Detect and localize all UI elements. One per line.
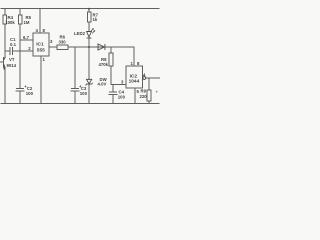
wire pin 2 to IC1	[20, 50, 33, 52]
svg-text:555: 555	[37, 47, 45, 53]
transistor VT base bar	[3, 58, 5, 67]
wire R9 branch	[148, 78, 150, 90]
diode VD	[98, 44, 104, 50]
svg-text:220: 220	[140, 94, 148, 99]
LED LED2	[87, 32, 92, 38]
wire R6 to IC2 corner	[68, 46, 134, 48]
wire R7 to LED2	[88, 22, 90, 32]
capacitor C2 electrolytic	[17, 88, 24, 90]
terminal circle pin 4	[143, 77, 146, 80]
svg-text:IC1: IC1	[36, 41, 44, 47]
resistor R7	[87, 12, 91, 22]
svg-text:1k: 1k	[93, 17, 98, 22]
svg-text:LED2: LED2	[74, 31, 86, 36]
wire top supply rail	[1, 8, 159, 10]
wire to IC2 pins 1,8	[133, 47, 135, 66]
svg-text:100: 100	[80, 91, 88, 96]
svg-text:6,7: 6,7	[23, 35, 30, 40]
svg-text:470k: 470k	[99, 62, 109, 67]
transistor VT base lead	[0, 61, 4, 63]
wire R5 vertical chain	[19, 9, 21, 16]
wire pins 6,7 to IC1	[20, 39, 33, 41]
wire R8 branch	[110, 47, 112, 53]
wire bottom ground rail	[1, 103, 159, 105]
svg-text:100k: 100k	[5, 20, 15, 25]
resistor R6	[57, 45, 68, 50]
node junction dot at rail	[88, 8, 90, 10]
node junction dot	[88, 46, 90, 48]
LED2 light arrows	[91, 29, 94, 32]
wire pin 1 to ground	[40, 56, 42, 103]
wire pins 4,8 to rail	[39, 9, 41, 34]
svg-text:100: 100	[118, 95, 126, 100]
wire pin 4 output	[146, 77, 161, 79]
transistor VT 9014	[4, 57, 6, 60]
wire node to zener	[88, 47, 90, 80]
svg-text:9014: 9014	[7, 63, 17, 68]
wire R8 to pin 3	[110, 66, 112, 85]
svg-text:330: 330	[59, 40, 67, 45]
svg-text:0.1: 0.1	[10, 42, 17, 47]
svg-text:1044: 1044	[129, 78, 140, 84]
wire pin 3 out	[49, 46, 57, 48]
wire R7 stub	[88, 9, 90, 13]
resistor R4	[3, 15, 6, 24]
svg-text:VT: VT	[9, 57, 15, 62]
svg-text:100: 100	[26, 91, 34, 96]
capacitor C4 electrolytic	[112, 85, 114, 93]
IC1 555 box	[33, 33, 49, 56]
wire LED2 cathode to node	[88, 38, 90, 47]
wire pin 5 to ground	[134, 88, 136, 103]
capacitor C3 electrolytic	[72, 88, 79, 90]
wire left vertical R4 chain	[4, 9, 6, 16]
wire zener to ground	[88, 84, 90, 103]
svg-text:4.0V: 4.0V	[98, 82, 107, 87]
svg-text:IC2: IC2	[130, 73, 138, 79]
IC2 1044 box	[126, 66, 143, 88]
resistor R8	[109, 53, 113, 66]
svg-text:R9: R9	[141, 89, 147, 94]
resistor R5	[18, 15, 22, 24]
resistor R9	[147, 90, 151, 101]
wire C3 branch	[74, 47, 76, 88]
wire pin 3 of IC2	[111, 84, 126, 86]
zener diode DW	[87, 79, 92, 84]
capacitor C1	[5, 50, 10, 52]
svg-text:1M: 1M	[24, 20, 30, 25]
wire emitter to ground rail	[4, 68, 6, 103]
